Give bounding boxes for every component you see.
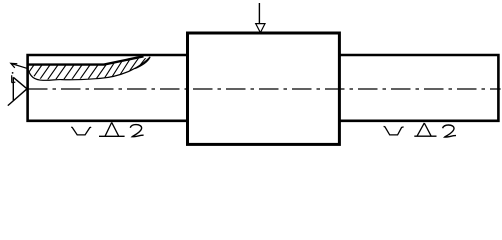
bottom left size label 2: [130, 125, 143, 137]
top load arrow open head: [256, 24, 265, 33]
left shaft section outline: [28, 55, 188, 121]
right shaft section outline: [339, 55, 498, 121]
left end finish triangle symbol: [8, 77, 27, 105]
bottom right U-groove weld symbol: [384, 126, 404, 134]
label 1: [12, 72, 16, 83]
weld deposit thin lower outline: [28, 57, 150, 81]
center block: [188, 33, 340, 144]
weld deposit hatching: [22, 54, 154, 82]
weld deposit beak hook outline: [135, 58, 150, 69]
bottom left U-groove weld symbol: [71, 127, 91, 135]
bottom left fillet triangle symbol: [99, 122, 125, 136]
top load arrow line: [258, 3, 260, 24]
weld deposit machined thick boundary line: [28, 56, 144, 64]
bottom right fillet triangle symbol: [414, 123, 436, 136]
bottom right size label 2: [443, 125, 456, 137]
leader arrow to deposit: [11, 64, 28, 69]
centerline (dash-dot axis): [28, 88, 501, 90]
